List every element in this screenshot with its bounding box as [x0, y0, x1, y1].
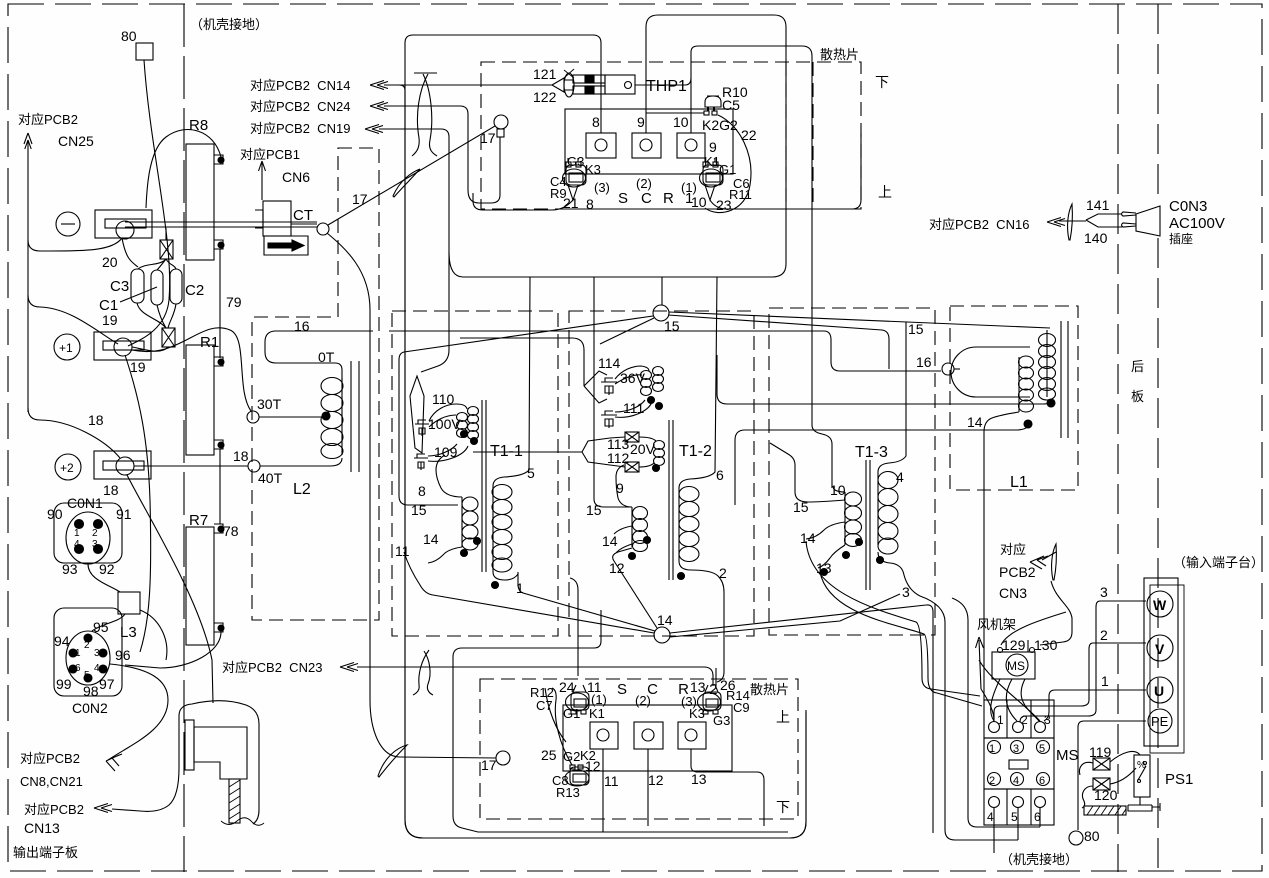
CN23 arrow [340, 663, 358, 672]
MS contact 2 [988, 773, 1001, 786]
T1-1 core [482, 400, 486, 572]
T1-2 primary coil [631, 507, 633, 547]
svg-text:2: 2 [84, 640, 90, 651]
CN6 arrow up from CT [259, 161, 266, 200]
diagonal node14 to T1-2 wire 12 [613, 548, 657, 628]
svg-text:MS: MS [1056, 747, 1079, 764]
svg-text:U: U [1154, 683, 1164, 699]
svg-text:12: 12 [585, 758, 601, 774]
L2 core lines [351, 361, 359, 472]
svg-text:14: 14 [800, 530, 816, 546]
svg-text:对应PCB1: 对应PCB1 [240, 147, 300, 162]
svg-text:9: 9 [637, 114, 645, 130]
diagonal node14 to T1-1 wire 1 [518, 572, 655, 631]
T1-1 primary bottom wire 14 [428, 547, 462, 563]
T1-1 tap coil B [468, 407, 479, 416]
diagonal node14 to MS drop 2 [670, 594, 900, 637]
T1-3 wire 13 tap [818, 545, 845, 568]
svg-text:97: 97 [99, 676, 115, 692]
L1 dots [1047, 399, 1055, 407]
svg-text:CN6: CN6 [282, 169, 310, 185]
T1-2 riser 15 from rail to primary [594, 277, 632, 507]
SCR1 anode 8 riser frame [405, 35, 806, 838]
svg-text:(2): (2) [636, 176, 652, 191]
T1-2 36V tap wires [615, 366, 649, 379]
wire from CT node down to bottom 17 circle [327, 233, 496, 758]
SCR1 pad 10 [677, 133, 705, 158]
svg-text:30T: 30T [257, 396, 282, 412]
svg-text:对应PCB2 CN14: 对应PCB2 CN14 [250, 78, 350, 93]
svg-text:C0N2: C0N2 [72, 700, 108, 716]
PS1 pipe tee [1128, 797, 1160, 811]
svg-text:R13: R13 [556, 785, 580, 800]
svg-text:11: 11 [395, 543, 410, 559]
rear panel dashed divider line 1 [1117, 4, 1119, 872]
wire lower fuse to +1 bolt [132, 347, 168, 351]
wire from K2G2 left to riser 9 [646, 112, 704, 114]
wire cluster to T1-2 36V pennant [460, 338, 584, 386]
wire from plus1 terminal down left column [125, 355, 151, 652]
svg-text:3: 3 [1100, 584, 1108, 600]
svg-text:112: 112 [607, 450, 630, 466]
node 14 [654, 627, 670, 643]
svg-text:120: 120 [1094, 787, 1118, 803]
CN25 bundle vertical wire with arrow up [27, 140, 29, 412]
svg-text:MS: MS [1007, 659, 1025, 673]
svg-text:3: 3 [902, 584, 910, 600]
svg-text:16: 16 [294, 318, 310, 334]
svg-text:130: 130 [1034, 637, 1058, 653]
stud 23 crimp point [705, 185, 715, 200]
svg-text:C0N1: C0N1 [67, 495, 103, 511]
svg-text:36V: 36V [620, 370, 646, 386]
svg-text:C: C [641, 190, 652, 207]
CN16 wire and arrow [1047, 218, 1065, 227]
C0N2 pin 5 [84, 674, 92, 682]
arrow to CN8 CN21 [106, 754, 122, 771]
svg-text:16: 16 [916, 354, 932, 370]
svg-text:CN8,CN21: CN8,CN21 [20, 774, 83, 789]
MS top terminal 3 [1035, 722, 1046, 733]
svg-text:S C R 2: S C R 2 [617, 681, 726, 698]
T1-1 tap dots [461, 431, 468, 438]
svg-text:V: V [1155, 641, 1165, 657]
wire stud26 riser second [715, 668, 717, 686]
svg-text:对应: 对应 [1000, 542, 1026, 557]
T1-3 core [866, 460, 870, 590]
C0N1 pin 1 [75, 520, 84, 529]
svg-text:（机壳接地）: （机壳接地） [190, 17, 268, 32]
stud 24 pins G1 K1 [571, 710, 576, 714]
wire from +1 bolt to 30T node (S-curve over R1) [132, 328, 251, 411]
svg-text:91: 91 [116, 506, 132, 522]
stud 26 pins K3 G3 [703, 710, 708, 714]
svg-text:对应PCB2 CN23: 对应PCB2 CN23 [222, 660, 322, 675]
T1-1 feed pennant [410, 376, 424, 453]
MS bottom terminal 5 [1013, 797, 1024, 808]
capacitor C1 body [151, 270, 163, 305]
svg-text:R8: R8 [189, 117, 208, 134]
svg-text:C0N3: C0N3 [1169, 198, 1207, 215]
CN16 pair to socket [1086, 214, 1122, 227]
svg-text:95: 95 [93, 619, 109, 635]
stud 21 pins G3 K3 [566, 162, 571, 167]
CN3 arrow [1030, 556, 1048, 569]
stud 24 ring [566, 693, 589, 711]
svg-text:15: 15 [664, 318, 680, 334]
C0N1 pin 2 [94, 520, 103, 529]
SCR1 pad 8 [586, 133, 616, 158]
torch cable hatched [229, 779, 240, 823]
wire 79 R8 to R1 [219, 249, 221, 358]
stud 24 upper left [571, 692, 589, 710]
L2 compartment dashed outline [252, 148, 379, 620]
top heat sink dashed box [481, 62, 861, 209]
torch flange plate [185, 720, 194, 770]
wire C0N1 to L3 [88, 564, 120, 592]
svg-text:21: 21 [563, 195, 579, 211]
solid rail under SCR1 up right side [556, 133, 861, 209]
svg-text:板: 板 [1131, 389, 1144, 404]
svg-text:19: 19 [102, 312, 118, 328]
svg-text:96: 96 [115, 647, 131, 663]
T1-1 compartment dashed box [392, 311, 558, 636]
terminal 80 square top [136, 43, 153, 60]
svg-text:W: W [1153, 597, 1167, 613]
wire loop RR2 SCR anode 10 over to T1-3 [691, 46, 832, 487]
fan wires crossing to contactor [981, 689, 994, 721]
minus output circle symbol [56, 212, 80, 236]
node 16 right at L1 [942, 363, 954, 375]
rear panel dashed divider line 2 [1157, 4, 1159, 872]
svg-text:对应PCB2: 对应PCB2 [24, 802, 84, 817]
svg-text:5: 5 [84, 670, 90, 681]
svg-text:25: 25 [541, 747, 557, 763]
svg-text:K1: K1 [704, 154, 720, 169]
40T node [248, 460, 260, 472]
node 15 riser to top rail [661, 277, 663, 305]
svg-text:8: 8 [418, 483, 426, 499]
welding torch boot left and wire to CN13 [112, 716, 179, 811]
torch body block [194, 727, 247, 779]
T1-3 primary dots [856, 539, 863, 546]
wire CN24 arrow [370, 102, 388, 111]
CN3 wires to fan pins [1040, 581, 1072, 645]
T1-1 primary coil [461, 497, 463, 547]
CT thick arrow [268, 240, 304, 251]
MS bottom terminal 4 [989, 797, 1000, 808]
T1-3 secondary dot [877, 557, 884, 564]
SCR2 pad 13 drop [691, 749, 764, 826]
wire 78 R1 to R7 [219, 449, 221, 524]
diagonal node15 to L1 coil [669, 312, 1050, 328]
T1-2 20V dot [653, 465, 660, 472]
svg-text:15: 15 [586, 502, 602, 518]
wire stud24 riser [570, 578, 578, 676]
K2G2 pin squares [704, 111, 709, 115]
wire node15 to node16 right [668, 315, 889, 369]
svg-text:5: 5 [1011, 810, 1018, 824]
17 terminal circle top SCR with stem [497, 129, 504, 137]
svg-text:THP1: THP1 [646, 78, 687, 95]
svg-text:94: 94 [54, 633, 70, 649]
wire from T1-3 13 tap down to fan area [820, 572, 982, 706]
SCR2 pad 12 drop [647, 749, 649, 826]
T1-2 tap dots [648, 397, 655, 404]
CT arrow box [264, 236, 308, 255]
svg-text:5: 5 [527, 465, 535, 481]
svg-text:R11: R11 [729, 187, 752, 202]
17 terminal circle bottom SCR [496, 751, 510, 765]
plus1 terminal bolt [114, 338, 132, 356]
svg-text:L2: L2 [293, 481, 311, 498]
diagonal node14 to T1-1 wire 11 [404, 552, 654, 633]
MS contact 1 [988, 741, 1001, 754]
wire from minus bolt down to capacitor group [122, 238, 138, 267]
minus terminal bolt [116, 221, 134, 239]
svg-text:2: 2 [719, 565, 727, 581]
svg-text:(2): (2) [635, 693, 651, 708]
T1-2 20V wires [610, 437, 656, 467]
svg-text:对应PCB2: 对应PCB2 [18, 112, 78, 127]
svg-text:10: 10 [691, 194, 707, 210]
ground circle 80 bottom [1069, 831, 1083, 845]
welding torch boot outline right [179, 701, 259, 824]
wire from T1-3 14 tap down to fan area [806, 541, 980, 696]
svg-text:121: 121 [533, 66, 557, 82]
svg-text:6: 6 [75, 663, 81, 674]
stud 25 pins [570, 765, 575, 769]
stud 23 ring [700, 169, 723, 187]
svg-text:(1): (1) [591, 692, 607, 707]
thyristor stud K2G2 top [705, 96, 721, 107]
connector C0N1 housing [54, 503, 122, 563]
thyristor stud 21 lower left [566, 165, 586, 185]
SCR2 pad 11 [590, 722, 618, 749]
wire fan column right [952, 598, 1040, 827]
torch cable break squiggle [221, 818, 264, 826]
svg-text:10: 10 [673, 114, 689, 130]
svg-text:109: 109 [434, 444, 458, 460]
T1-2 thermal fuse 111 [601, 411, 617, 428]
main output bus double line through CT [125, 222, 317, 227]
wire from stud 21 to left rail end [473, 193, 573, 210]
svg-text:0T: 0T [318, 349, 335, 365]
R1 top tab [214, 357, 223, 366]
svg-text:79: 79 [226, 294, 242, 310]
svg-text:18: 18 [233, 448, 249, 464]
T1-2 compartment dashed box [569, 311, 754, 636]
cable bundle ellipse symbol on CN wires [414, 72, 437, 74]
svg-text:对应PCB2 CN24: 对应PCB2 CN24 [250, 99, 350, 114]
stud 23 pins K1 G1 [703, 162, 708, 167]
wires fuse to capacitor tops [138, 259, 176, 270]
svg-text:1: 1 [989, 743, 995, 755]
T1-1 primary top wire 8 [436, 455, 462, 497]
fuse X-box upper [160, 240, 173, 259]
L1 stadium body [951, 347, 1030, 397]
svg-text:9: 9 [709, 139, 717, 155]
svg-text:98: 98 [83, 683, 99, 699]
C0N2 pin 1 [69, 649, 77, 657]
twisted pair at THP1 leads [564, 73, 574, 97]
wire from 80 square to +1 bolt [128, 60, 170, 346]
wire from R12 C7 down [545, 688, 566, 742]
fan motor MS circle [1006, 654, 1028, 676]
svg-text:23: 23 [716, 197, 732, 213]
svg-text:17: 17 [352, 191, 368, 207]
T1-3 secondary wire 4 up [878, 322, 906, 472]
svg-text:T1-2: T1-2 [679, 443, 712, 460]
C0N1 ellipse [66, 512, 110, 564]
wire from R7 bottom tab sweeping left [125, 632, 221, 668]
svg-text:C2: C2 [185, 282, 204, 299]
CN3 twisted pair [1052, 544, 1057, 580]
twisted pair on CN23 wire [413, 650, 433, 695]
node 15 [653, 305, 669, 321]
svg-text:15: 15 [793, 499, 809, 515]
THP1 contact bar lower [573, 86, 605, 94]
svg-text:14: 14 [967, 414, 983, 430]
C0N2 pin 4 [99, 665, 107, 673]
svg-text:10: 10 [830, 482, 846, 498]
plus1 terminal lug box [94, 332, 151, 360]
svg-text:20V: 20V [630, 441, 656, 457]
R1 bottom tab [214, 440, 223, 449]
svg-text:12: 12 [609, 560, 625, 576]
R8 bottom tab [214, 240, 223, 249]
svg-text:15: 15 [908, 321, 924, 337]
wire CN19 lead and drop to T1-1 pennant [379, 129, 449, 372]
T1-3 wire 10 top [833, 487, 845, 492]
T1-3 13 drop wire [821, 569, 828, 576]
stud 26 upper right [703, 692, 721, 710]
THP1 contact bar upper [573, 75, 605, 83]
T1-2 36V pennant [584, 371, 607, 403]
stud 21 ring [563, 169, 586, 187]
T1-3 wire 14 tap [806, 522, 845, 539]
T1-2 secondary wire 6 up [679, 277, 717, 488]
T1-2 fuse 112 X-box [625, 462, 639, 472]
svg-text:13: 13 [816, 560, 832, 576]
svg-text:2: 2 [989, 775, 995, 787]
svg-text:T1-3: T1-3 [855, 444, 888, 461]
svg-text:R: R [663, 190, 674, 207]
svg-text:141: 141 [1086, 197, 1110, 213]
wire rail 277 from CN19 drop to SCR anode 9 loop [449, 15, 786, 277]
wire 404 from riser6 to L1 coil [717, 355, 1051, 404]
svg-text:输出端子板: 输出端子板 [13, 845, 78, 860]
heat sink inner dashed verticals [786, 62, 813, 207]
T1-1 secondary dot [492, 582, 499, 589]
svg-text:24: 24 [559, 679, 575, 695]
svg-text:1: 1 [1101, 673, 1109, 689]
L1 wire 14 down [984, 412, 1019, 700]
svg-text:114: 114 [598, 355, 621, 371]
svg-text:C5: C5 [722, 97, 740, 113]
C0N2 pin 3 [99, 649, 107, 657]
bottom SCR feed wire from CN23 [357, 667, 713, 686]
svg-text:（输入端子台）: （输入端子台） [1173, 555, 1264, 570]
svg-text:14: 14 [657, 612, 673, 628]
svg-text:8: 8 [592, 114, 600, 130]
svg-text:4: 4 [896, 469, 904, 485]
node after CT [317, 223, 329, 235]
svg-text:111: 111 [623, 400, 644, 416]
svg-text:CN13: CN13 [24, 820, 60, 836]
svg-text:40T: 40T [258, 470, 283, 486]
twisted pair on CN16 wire [1068, 204, 1073, 240]
svg-text:S: S [618, 190, 628, 207]
PS1 wires squiggle [1080, 762, 1093, 808]
plus2 terminal lug box [94, 451, 151, 479]
SCR1 module body [565, 109, 733, 174]
svg-text:1: 1 [74, 528, 80, 539]
T1-2 primary tap 14 [614, 526, 632, 534]
svg-text:19: 19 [130, 359, 146, 375]
wires from C0N2 to CN8 CN21 arrow [108, 664, 168, 760]
svg-text:3: 3 [92, 539, 98, 550]
C0N2 ellipse [66, 631, 110, 685]
CT current transformer body [263, 201, 291, 236]
MS bottom drops [994, 808, 1040, 853]
svg-text:129: 129 [1002, 637, 1026, 653]
twisted pair symbol on bottom 17 wire [378, 745, 407, 777]
svg-text:T1-1: T1-1 [490, 443, 523, 460]
T1-1 secondary bottom wire 1 [493, 572, 518, 580]
svg-text:17: 17 [481, 757, 497, 773]
svg-text:20: 20 [102, 254, 118, 270]
wire 19 from +1 bolt to CN25 bundle [28, 295, 118, 344]
C0N1 pin 4 [75, 545, 84, 554]
SCR2 module body [563, 705, 732, 771]
svg-text:11: 11 [604, 773, 619, 789]
fan frame arrow [976, 637, 984, 689]
fuse X-box lower [162, 328, 175, 347]
diagonal node15 to T1-2 pennant [600, 318, 654, 344]
C0N1 pin 3 [94, 545, 103, 554]
svg-text:18: 18 [103, 482, 119, 498]
T1-1 primary dots [474, 538, 481, 545]
svg-text:3: 3 [1044, 713, 1051, 727]
SCR1 pad 9 [632, 133, 661, 158]
svg-text:2: 2 [1100, 627, 1108, 643]
SCR2 pad 13 [678, 722, 706, 749]
PS1 mounting hatched bar [1084, 806, 1126, 815]
svg-text:12: 12 [648, 772, 664, 788]
svg-text:C3: C3 [110, 278, 129, 295]
stud 26 ring [698, 693, 721, 711]
svg-text:100V: 100V [428, 416, 461, 432]
terminal PE [1148, 709, 1172, 733]
L1 right coil [1046, 330, 1048, 397]
wire 2 from V to contactor [994, 643, 1146, 721]
svg-text:13: 13 [690, 679, 706, 695]
bottom heat sink dashed box [480, 679, 798, 819]
wire 17 diagonal from CT node to top SCR circle [328, 126, 495, 225]
svg-text:6: 6 [716, 467, 724, 483]
svg-text:对应PCB2: 对应PCB2 [20, 751, 80, 766]
C0N2 pin top [84, 634, 92, 642]
svg-text:R7: R7 [189, 512, 208, 529]
T1-1 tap coil A [457, 413, 468, 422]
MS contact 5 [1037, 741, 1050, 754]
inductor L3 box [118, 592, 140, 614]
svg-text:散热片: 散热片 [750, 682, 789, 697]
svg-text:4: 4 [1013, 775, 1019, 787]
twisted pair symbol on wire 17 [393, 169, 420, 197]
wire 18 from +2 bolt to CN25 bundle [28, 408, 120, 458]
